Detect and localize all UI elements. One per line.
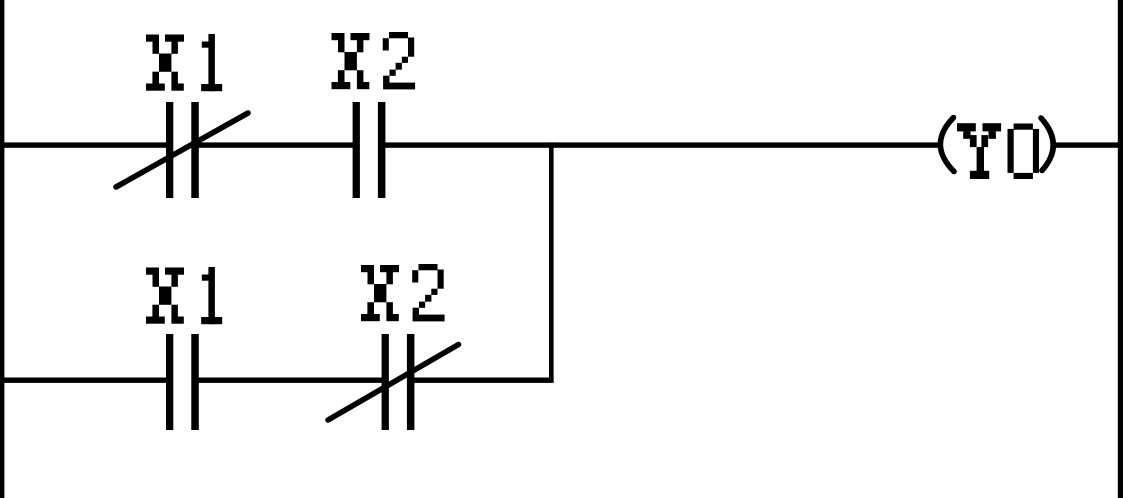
coil Y0 label 0 bbox=[1008, 124, 1040, 180]
label X1 (top rung) bbox=[146, 34, 222, 91]
slash of NC contact X2 bbox=[328, 345, 459, 421]
branch vertical wire joining parallel rung bbox=[549, 142, 554, 382]
wire: left rail to contact X1 (top rung) bbox=[0, 142, 167, 147]
contact X2 normally-open (top rung) bbox=[353, 102, 386, 198]
wire: left rail to contact X1 (bottom rung) bbox=[0, 378, 167, 383]
wire: contact X1 to contact X2 (top rung) bbox=[199, 142, 354, 147]
slash of NC contact X1 bbox=[116, 113, 248, 187]
label X2 (bottom rung) bbox=[361, 264, 445, 321]
contact X1 normally-closed (top rung) bbox=[166, 102, 199, 198]
coil Y0 label Y bbox=[957, 123, 1001, 179]
contact X1 normally-open (bottom rung) bbox=[166, 334, 199, 430]
coil Y0 left parenthesis bbox=[940, 118, 954, 172]
label X1 (bottom rung) bbox=[146, 267, 222, 324]
label X2 (top rung) bbox=[332, 32, 416, 89]
wire: contact X1 to contact X2 (bottom rung) bbox=[199, 378, 383, 383]
wire: coil Y0 to right rail bbox=[1054, 142, 1123, 147]
right power rail bbox=[1118, 0, 1123, 498]
contact X2 normally-closed (bottom rung) bbox=[382, 334, 415, 430]
coil Y0 right parenthesis bbox=[1041, 118, 1053, 171]
left power rail bbox=[0, 0, 4, 498]
wire: contact X2 to coil Y0 (top rung) bbox=[384, 142, 939, 147]
wire: contact X2 to branch vertical (bottom rung) bbox=[414, 378, 554, 383]
